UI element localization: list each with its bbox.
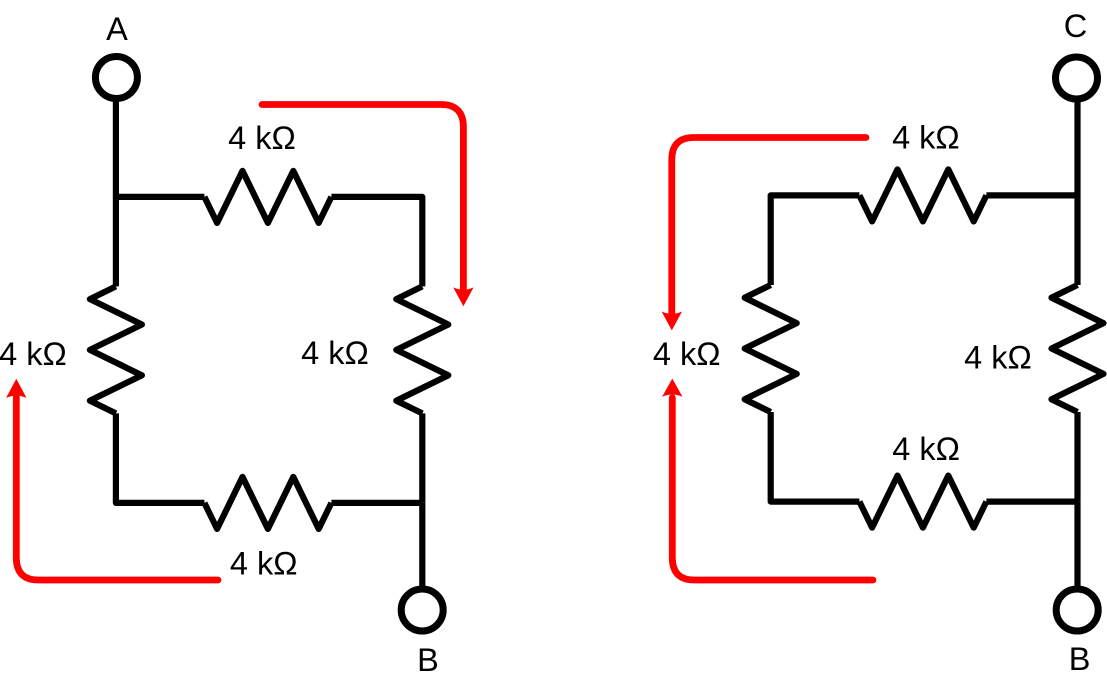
current arrow head (up)	[6, 379, 26, 398]
current arrow shaft A to B (red, down)	[262, 105, 463, 290]
resistor R4 4kOhm bottom	[204, 477, 331, 529]
svg-text:C: C	[1064, 8, 1087, 44]
wire A to top-left node	[113, 101, 119, 287]
resistor R3 4kOhm right vertical	[396, 286, 448, 413]
wire R4 to bottom-right node	[331, 500, 422, 506]
svg-text:4 kΩ: 4 kΩ	[228, 120, 296, 156]
resistor R8 4kOhm bottom	[859, 476, 986, 528]
svg-text:4 kΩ: 4 kΩ	[230, 546, 298, 582]
resistor R7 4kOhm right vertical	[1052, 285, 1104, 412]
wire R1 to bottom-left corner	[116, 413, 204, 503]
wire R7 to bottom-right node	[1074, 412, 1080, 502]
wire top-left corner of right circuit down to R6	[771, 195, 860, 285]
wire R6 to bottom-left corner	[771, 412, 860, 502]
svg-text:4 kΩ: 4 kΩ	[892, 431, 960, 467]
current arrow head (down)	[453, 287, 473, 306]
svg-text:4 kΩ: 4 kΩ	[964, 339, 1032, 375]
svg-text:4 kΩ: 4 kΩ	[0, 336, 67, 372]
svg-text:A: A	[106, 11, 128, 47]
current arrow head right circuit (down)	[662, 312, 682, 331]
wire bottom-right node to terminal B	[1074, 502, 1080, 589]
wire R2 to top-right corner and down to R3	[331, 197, 422, 287]
current arrow shaft B to A (red, up)	[16, 397, 218, 580]
wire R3 to bottom-right node	[419, 413, 425, 503]
wire R8 to bottom-right node	[986, 499, 1077, 505]
svg-text:B: B	[1069, 641, 1091, 677]
terminal A	[95, 57, 137, 99]
current arrow shaft C loop (red, down)	[672, 138, 866, 314]
wire top-left node to R2	[116, 194, 204, 200]
svg-text:B: B	[417, 642, 439, 678]
resistor R5 4kOhm top	[859, 169, 986, 221]
terminal B right circuit	[1056, 589, 1098, 631]
resistor R6 4kOhm left vertical	[745, 285, 797, 412]
wire bottom-right node to terminal B	[419, 503, 425, 590]
svg-text:4 kΩ: 4 kΩ	[892, 120, 960, 156]
resistor R1 4kOhm left vertical	[90, 286, 142, 413]
wire C to top-right node and down to R7	[1074, 101, 1080, 285]
svg-text:4 kΩ: 4 kΩ	[301, 335, 369, 371]
svg-text:4 kΩ: 4 kΩ	[653, 336, 721, 372]
resistor R2 4kOhm top	[204, 171, 331, 223]
current arrow shaft right circuit (red, up)	[672, 398, 873, 581]
current arrow head right circuit (up)	[662, 379, 682, 397]
wire R5 to top-right node	[986, 192, 1077, 198]
terminal C	[1056, 57, 1098, 99]
terminal B left circuit	[401, 589, 443, 631]
